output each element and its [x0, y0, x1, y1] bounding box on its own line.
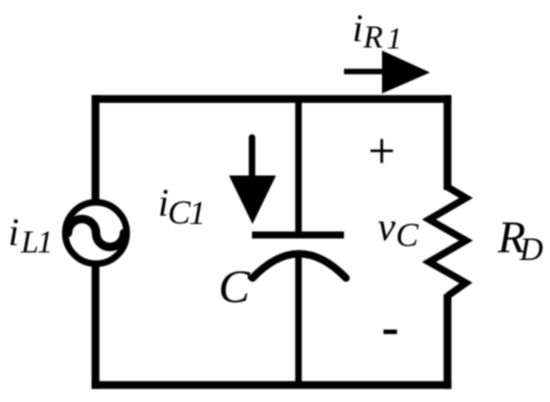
wire middle lower	[295, 252, 302, 385]
current arrow iC1 shaft	[249, 138, 256, 179]
capacitor C curved plate	[253, 254, 347, 278]
svg-text:1: 1	[189, 195, 206, 232]
svg-text:C: C	[396, 217, 419, 254]
wire bottom	[92, 381, 452, 389]
svg-text:R: R	[362, 18, 383, 54]
label RD	[497, 211, 543, 267]
wire left upper	[92, 95, 100, 203]
current arrow iR1 shaft	[344, 69, 390, 75]
svg-text:D: D	[519, 232, 543, 268]
label iR1	[352, 7, 402, 56]
current source IL1	[65, 202, 126, 263]
current arrow iR1 head	[382, 51, 430, 94]
wire left lower	[92, 263, 100, 389]
svg-text:1: 1	[37, 224, 53, 260]
svg-text:L: L	[20, 224, 39, 260]
svg-text:v: v	[378, 204, 396, 249]
svg-text:1: 1	[387, 21, 403, 56]
minus sign polarity	[384, 330, 398, 335]
wire top	[92, 95, 452, 103]
plus sign polarity	[371, 139, 394, 163]
wire middle upper	[295, 99, 302, 234]
svg-text:i: i	[8, 211, 19, 254]
wire right upper	[444, 95, 452, 190]
capacitor C top plate	[252, 232, 344, 239]
label vC	[378, 204, 419, 254]
resistor RD zigzag	[429, 187, 466, 296]
svg-text:i: i	[352, 7, 363, 50]
svg-text:C: C	[219, 261, 251, 313]
label iC1	[158, 182, 206, 233]
svg-text:C: C	[168, 195, 191, 232]
current arrow iC1 head	[229, 176, 276, 225]
wire right lower	[444, 294, 452, 389]
label iL1	[8, 211, 53, 260]
